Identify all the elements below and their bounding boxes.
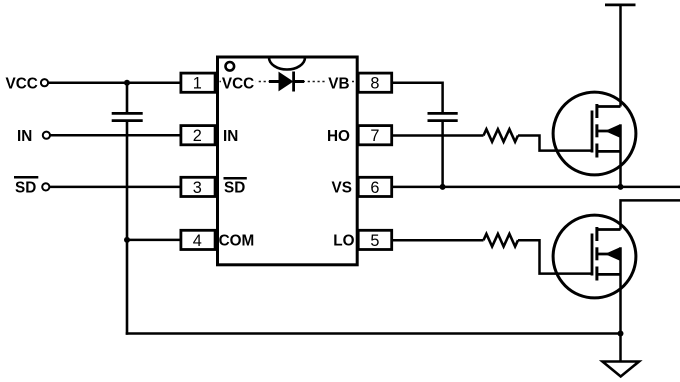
svg-text:VCC: VCC [222, 75, 254, 92]
resistor R1 (high-side gate) [484, 129, 519, 142]
terminal IN [43, 132, 50, 139]
pin 6 box [358, 177, 392, 197]
diode D1 (bootstrap) [269, 72, 304, 92]
wire VCC terminal to pin 1 [49, 81, 181, 84]
IC notch semicircle [269, 58, 305, 70]
wire R2 to Q2 gate [518, 240, 592, 273]
power rail bar (top) [605, 4, 636, 7]
label SD (input terminal, overline) [14, 177, 38, 196]
IC label VCC [221, 74, 256, 92]
svg-text:LO: LO [333, 233, 354, 250]
svg-text:SD: SD [15, 180, 36, 197]
wire VCC bus vertical (left) [126, 83, 129, 114]
wire cap to VS [441, 121, 444, 187]
junction Q2 source/bottom rail [618, 331, 624, 337]
transistor Q2 (low-side MOSFET) [553, 215, 636, 333]
svg-text:VCC: VCC [6, 75, 38, 92]
IC label SD (overline) [224, 178, 247, 196]
IC U1 body [218, 57, 358, 265]
dashed bootstrap net VCC-VB [220, 81, 356, 83]
svg-text:HO: HO [327, 128, 350, 145]
resistor R2 (low-side gate) [484, 234, 519, 247]
transistor Q1 (high-side MOSFET) [553, 92, 636, 187]
wire COM to bus [127, 239, 181, 242]
svg-text:IN: IN [223, 128, 238, 145]
svg-text:VS: VS [332, 180, 352, 197]
svg-text:6: 6 [370, 179, 379, 197]
junction VCC/C1 [124, 80, 130, 86]
wire pin 5 to gate resistor [393, 239, 484, 242]
terminal SD [42, 183, 49, 190]
svg-text:COM: COM [219, 233, 255, 250]
wire rail to Q1 drain [619, 5, 622, 107]
svg-text:IN: IN [17, 128, 32, 145]
wire IN terminal to pin 2 [50, 134, 180, 137]
svg-text:5: 5 [370, 232, 379, 250]
wire pin 8 to bootstrap cap [393, 83, 443, 114]
junction Q1 source/VS [618, 184, 624, 190]
wire to ground [619, 334, 622, 362]
wire R1 to Q1 gate [518, 136, 592, 151]
pin 1 box [181, 73, 215, 93]
terminal VCC [41, 79, 48, 86]
svg-text:4: 4 [193, 232, 202, 250]
pin 8 box [358, 73, 392, 93]
ground symbol [603, 362, 640, 377]
capacitor C1 (VCC decoupling) [112, 113, 143, 120]
wire pin 7 to gate resistor [393, 134, 484, 137]
junction C2/VS [440, 184, 446, 190]
wire cap to bottom rail [126, 121, 129, 335]
svg-text:8: 8 [370, 75, 379, 93]
pin 7 box [358, 126, 392, 146]
svg-text:SD: SD [224, 180, 245, 197]
IC pin-1 indicator circle [226, 62, 235, 71]
wire Q2 drain to right edge [621, 200, 680, 229]
svg-text:1: 1 [193, 75, 202, 93]
svg-text:VB: VB [328, 75, 349, 92]
wire SD terminal to pin 3 [50, 186, 181, 189]
junction COM/bus [124, 237, 130, 243]
pin 5 box [358, 230, 392, 250]
svg-text:3: 3 [193, 179, 202, 197]
svg-text:7: 7 [370, 127, 379, 145]
wire bottom rail [126, 332, 621, 335]
IC label VB [327, 74, 353, 92]
pin 3 box [181, 177, 215, 197]
svg-text:2: 2 [193, 127, 202, 145]
pin 2 box [181, 126, 215, 146]
pin 4 box [181, 230, 215, 250]
wire VS pin 6 to right edge [393, 186, 680, 189]
capacitor C2 (bootstrap) [428, 113, 458, 120]
